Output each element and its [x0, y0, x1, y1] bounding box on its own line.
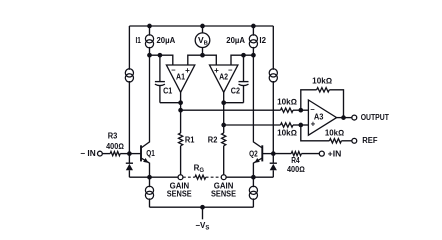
op-amp A2 — [210, 65, 238, 92]
terminal +IN — [319, 149, 341, 158]
current source: Q2 tail — [249, 177, 257, 207]
resistor 10k at A3 noninverting input — [277, 123, 308, 138]
svg-text:R4: R4 — [291, 156, 300, 165]
terminal GAIN SENSE right — [211, 175, 237, 199]
op-amp A3 — [308, 100, 336, 135]
terminal REF — [352, 136, 378, 145]
terminal -IN — [80, 149, 102, 158]
svg-text:A1: A1 — [176, 72, 185, 81]
terminal GAIN SENSE left — [167, 175, 193, 199]
terminal OUTPUT — [352, 113, 389, 122]
svg-text:REF: REF — [362, 136, 377, 145]
svg-text:OUTPUT: OUTPUT — [361, 113, 389, 122]
resistor 10k feedback — [301, 77, 344, 118]
svg-text:10kΩ: 10kΩ — [277, 129, 297, 138]
current source: Q1 tail — [145, 177, 153, 207]
wire: VB node to A1 and A2 noninverting inputs — [188, 53, 217, 65]
resistor R2 — [208, 133, 226, 175]
svg-text:C2: C2 — [231, 87, 241, 96]
svg-text:10kΩ: 10kΩ — [277, 97, 297, 106]
capacitor C1 — [155, 55, 181, 102]
node: Q1 emitter junction — [147, 175, 178, 180]
svg-text:I2: I2 — [259, 36, 266, 45]
svg-text:SENSE: SENSE — [211, 189, 237, 198]
wire: Q2 collector node to A2 inverting input — [231, 53, 256, 65]
svg-text:20µA: 20µA — [226, 36, 245, 45]
wire: positive supply top rail — [129, 24, 273, 29]
resistor 10k to REF — [301, 125, 352, 143]
wire: A2 output to A3 noninverting input — [224, 124, 281, 126]
resistor R3 400ohm — [102, 132, 129, 156]
svg-text:I1: I1 — [136, 36, 142, 45]
wire: right rail with input bias current source — [269, 26, 277, 154]
svg-text:10kΩ: 10kΩ — [325, 129, 344, 138]
node: Q2 base junction — [271, 151, 276, 156]
svg-text:C1: C1 — [163, 87, 173, 96]
wire: A2 output node with junctions — [221, 92, 226, 133]
svg-text:20µA: 20µA — [157, 36, 176, 45]
node: A3 noninverting input junction — [298, 123, 303, 128]
wire: A3 output — [337, 115, 352, 120]
node: A3 inverting input junction — [298, 108, 303, 113]
svg-text:R2: R2 — [208, 136, 218, 145]
wire: A1 output node with junctions — [178, 92, 183, 133]
capacitor C2 — [224, 55, 249, 102]
svg-text:+: + — [185, 66, 190, 75]
op-amp A1 — [166, 65, 194, 92]
svg-text:A3: A3 — [314, 112, 324, 121]
node: Q2 emitter junction — [226, 175, 256, 180]
svg-text:A2: A2 — [219, 72, 228, 81]
resistor R4 400ohm — [273, 152, 319, 175]
svg-text:Q1: Q1 — [146, 149, 155, 158]
resistor 10k at A3 inverting input — [277, 97, 308, 112]
svg-text:R1: R1 — [185, 136, 195, 145]
svg-text:400Ω: 400Ω — [106, 142, 124, 151]
wire: Q1 collector node to A1 inverting input — [147, 53, 173, 65]
wire: A1 output to A3 inverting input — [181, 109, 281, 111]
transistor Q2 — [249, 55, 273, 177]
svg-text:+IN: +IN — [328, 149, 342, 158]
svg-text:− IN: − IN — [80, 149, 96, 158]
svg-text:400Ω: 400Ω — [287, 165, 305, 174]
wire: -VS bottom rail — [150, 205, 254, 219]
svg-text:R3: R3 — [108, 132, 118, 141]
diode: -IN clamp — [126, 154, 150, 178]
diode: +IN clamp — [253, 154, 277, 178]
wire: left rail with input bias current source — [125, 26, 133, 154]
voltage source VB — [195, 26, 210, 55]
svg-text:−: − — [228, 65, 233, 74]
current source I2 20uA — [226, 26, 266, 55]
current source I1 20uA — [136, 26, 176, 55]
label -VS — [195, 221, 209, 232]
resistor RG external gain resistor (dashed leads) — [183, 163, 221, 179]
svg-text:Q2: Q2 — [249, 149, 258, 158]
transistor Q1 — [129, 55, 155, 177]
svg-text:10kΩ: 10kΩ — [312, 77, 332, 86]
resistor R1 — [179, 133, 196, 175]
node: Q1 base junction — [127, 151, 132, 156]
svg-text:SENSE: SENSE — [167, 189, 193, 198]
